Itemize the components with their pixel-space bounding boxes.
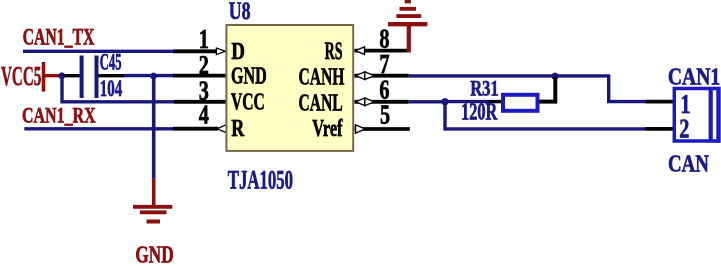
svg-text:C45: C45 (100, 50, 122, 76)
pin 7 stub (355, 74, 409, 78)
wire CANL lower path (445, 103, 646, 129)
junction CANH-R31 (551, 73, 558, 80)
pin 4 stub (173, 127, 218, 131)
wire VCC5 to junction (red) (44, 74, 61, 77)
wire cap to pin2 (124, 74, 174, 77)
pin 7 arrow bidirectional (356, 72, 365, 80)
pin 6 arrow bidirectional (356, 98, 365, 106)
ground GND stem (red) (152, 178, 156, 205)
wire GND vertical (152, 76, 156, 178)
resistor R31 body (503, 95, 538, 111)
wire CANL (409, 100, 444, 103)
svg-text:R31: R31 (470, 76, 498, 101)
svg-text:CAN: CAN (668, 150, 709, 177)
pin 3 stub (174, 100, 226, 104)
svg-text:VCC5: VCC5 (1, 60, 41, 91)
pin 8 arrow (356, 47, 365, 55)
svg-text:5: 5 (380, 101, 390, 130)
ground (top right) stem (407, 25, 411, 52)
ground (top right) bar 4 (405, 0, 411, 3)
power port VCC5 bar (42, 62, 46, 92)
svg-text:D: D (231, 38, 245, 65)
svg-text:CANL: CANL (299, 90, 343, 116)
ground (top right) bar 2 (396, 14, 421, 18)
connector pin 1 stub (646, 100, 673, 104)
svg-text:4: 4 (199, 101, 209, 130)
ground GND bar 1 (133, 205, 172, 209)
ground GND bar 3 (147, 220, 161, 224)
pin 1 arrow (216, 48, 225, 55)
svg-text:120R: 120R (461, 100, 497, 126)
resistor R31 right pin (540, 77, 556, 102)
svg-text:VCC: VCC (231, 89, 265, 115)
wire CANH (409, 76, 646, 102)
pin 2 stub (173, 74, 226, 78)
connector CAN1 inner bar (709, 89, 713, 142)
svg-text:R: R (231, 115, 245, 142)
pin 5 arrow (356, 125, 366, 133)
junction VCC node (58, 72, 65, 79)
svg-text:TJA1050: TJA1050 (228, 164, 293, 194)
pin 4 arrow (217, 125, 226, 133)
pin 6 stub (355, 100, 409, 104)
capacitor C45 right pin (99, 74, 125, 77)
svg-text:CAN1_RX: CAN1_RX (22, 104, 96, 128)
capacitor C45 left plate (80, 56, 84, 99)
ground (top right) bar 3 (400, 7, 417, 11)
wire CAN1_RX (24, 127, 174, 130)
svg-text:104: 104 (100, 77, 123, 102)
pin 8 stub (355, 49, 411, 53)
ground (top right) bar 1 (388, 22, 427, 26)
capacitor C45 left pin (63, 74, 80, 77)
connector pin 2 stub (646, 127, 673, 131)
svg-text:RS: RS (325, 38, 343, 65)
svg-text:CAN1_TX: CAN1_TX (23, 25, 95, 51)
wire VCC down elbow to pin3 (62, 76, 174, 102)
connector CAN1 right bar (716, 87, 720, 143)
wire CANL to resistor (446, 100, 489, 103)
svg-text:2: 2 (679, 114, 689, 145)
ground GND bar 2 (140, 210, 167, 214)
resistor R31 left pin (489, 100, 503, 103)
IC U8 TJA1050 box (226, 25, 353, 151)
connector CAN1 box (674, 89, 718, 142)
junction CANL-R31 (441, 98, 448, 105)
svg-text:GND: GND (231, 64, 267, 90)
svg-text:GND: GND (135, 241, 173, 266)
pin 1 stub (173, 49, 218, 53)
svg-text:CANH: CANH (299, 64, 345, 90)
capacitor C45 right plate (95, 56, 99, 99)
svg-text:CAN1: CAN1 (668, 63, 720, 91)
wire CAN1_TX (23, 50, 174, 53)
svg-text:U8: U8 (229, 0, 251, 25)
svg-text:Vref: Vref (312, 116, 343, 142)
junction GND node (150, 73, 157, 80)
pin 5 stub (355, 127, 410, 131)
